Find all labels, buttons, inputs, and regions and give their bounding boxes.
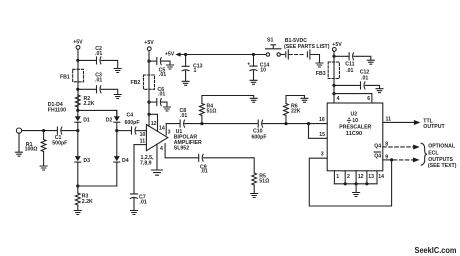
label OPTIONAL ECL OUTPUTS (428, 144, 457, 169)
ground (input) (16, 152, 23, 156)
svg-text:B1-5VDC: B1-5VDC (285, 38, 307, 44)
svg-text:10: 10 (352, 118, 358, 124)
ground (R6) (301, 98, 308, 102)
pin 11 wire (134, 139, 146, 145)
+5V terminal (op-amp supply) (144, 40, 154, 51)
svg-text:.01: .01 (201, 169, 208, 175)
ground (C11) (367, 60, 374, 64)
svg-text:(SEE PARTS LIST): (SEE PARTS LIST) (284, 44, 330, 50)
svg-text:51Ω: 51Ω (259, 178, 269, 184)
svg-text:2.2K: 2.2K (82, 199, 93, 205)
wire ECL output pin 9 (383, 154, 413, 161)
svg-text:14: 14 (378, 174, 384, 180)
svg-text:14: 14 (159, 125, 165, 131)
svg-text:U2: U2 (351, 112, 358, 118)
pin 12 label (151, 121, 157, 127)
wire bridge top (76, 109, 117, 115)
diode D1 (75, 110, 90, 130)
wire C8 to C10 (185, 122, 257, 125)
node bridge right (115, 129, 118, 132)
diode D4 (114, 131, 129, 186)
wire op-amp ground stub (156, 144, 158, 169)
ferrite bead FB1 (60, 69, 84, 82)
svg-text:1: 1 (336, 174, 339, 180)
ground (R4) (250, 98, 257, 102)
svg-text:C11: C11 (345, 61, 354, 67)
ferrite bead FB2 (131, 75, 155, 89)
ground (R1) (40, 166, 47, 170)
svg-text:.01: .01 (95, 51, 102, 57)
capacitor C7 (131, 145, 147, 210)
svg-text:FB1: FB1 (60, 74, 70, 80)
wire +5V column 1 (76, 49, 79, 110)
svg-text:.01: .01 (140, 200, 147, 206)
svg-text:10: 10 (140, 132, 146, 138)
wire +5V column 3 (332, 52, 335, 104)
brace ECL outputs (421, 143, 427, 165)
svg-text:500pF: 500pF (52, 141, 67, 147)
svg-text:D3: D3 (83, 158, 90, 164)
wire +5V column 2 (147, 51, 150, 127)
svg-text:.01: .01 (95, 77, 102, 83)
capacitor C13 (182, 55, 203, 81)
svg-text:OPTIONAL: OPTIONAL (428, 144, 456, 150)
svg-text:11C90: 11C90 (346, 131, 362, 137)
resistor R6 (284, 96, 305, 124)
resistor R5 (252, 173, 269, 193)
wire bridge bottom (76, 184, 117, 187)
svg-text:D4: D4 (122, 158, 129, 164)
svg-text:Q4: Q4 (374, 143, 381, 149)
ground (R5) (251, 194, 258, 198)
svg-text:51Ω: 51Ω (207, 109, 217, 115)
svg-text:9: 9 (385, 154, 388, 160)
prescaler U2 11C90 (327, 103, 383, 171)
label TTL OUTPUT (423, 119, 445, 131)
svg-text:.01: .01 (159, 72, 166, 78)
pin 16 label (319, 117, 325, 123)
wire ground bus (334, 182, 377, 185)
svg-text:Q4: Q4 (374, 154, 381, 160)
wire pin 6 feed (334, 94, 372, 103)
svg-text:+5V: +5V (144, 40, 154, 46)
ground (op-amp) (152, 170, 163, 175)
capacitor C12 (334, 69, 380, 89)
svg-text:4: 4 (160, 146, 163, 152)
wire +5V rail (181, 53, 266, 56)
svg-text:15: 15 (319, 132, 325, 138)
svg-text:12: 12 (151, 121, 157, 127)
resistor R1 (25, 131, 46, 166)
wire op-amp output pin 3 (166, 124, 180, 136)
watermark SeekIC.com (415, 246, 457, 255)
svg-text:4: 4 (337, 96, 340, 102)
svg-text:10: 10 (260, 67, 266, 73)
svg-text:2.2K: 2.2K (84, 101, 95, 107)
capacitor C9 (199, 154, 208, 174)
wire input to ground (18, 133, 20, 152)
svg-text:.01: .01 (158, 92, 165, 98)
svg-text:.01: .01 (361, 75, 368, 81)
input terminal J1 (16, 128, 21, 133)
svg-text:16: 16 (319, 117, 325, 123)
wire pin 3 feedback loop (309, 152, 391, 207)
svg-text:D1: D1 (83, 118, 90, 124)
svg-text:100Ω: 100Ω (25, 147, 38, 153)
+5V terminal (left) (73, 39, 83, 49)
wire C10 to prescaler pin 16 (262, 122, 327, 125)
svg-text:8: 8 (385, 142, 388, 148)
capacitor C8 (180, 108, 188, 127)
label D1-D4 FH1100 (48, 102, 66, 114)
ground (C6) (164, 107, 171, 111)
node bridge left (76, 129, 79, 132)
wire C9 to R5 (203, 158, 254, 173)
svg-text:600pF: 600pF (125, 120, 140, 126)
ferrite bead FB3 (316, 62, 340, 79)
svg-text:OUTPUT: OUTPUT (423, 124, 445, 130)
capacitor C10 (252, 120, 267, 140)
svg-text:+5V: +5V (73, 39, 83, 45)
wire pin 14 feed (149, 114, 158, 131)
pin labels Q4 (374, 143, 381, 159)
diode D3 (75, 131, 90, 186)
svg-text:S1: S1 (267, 38, 273, 44)
capacitor C2 (78, 46, 118, 68)
svg-text:(SEE TEXT): (SEE TEXT) (428, 163, 457, 169)
capacitor C3 (78, 73, 118, 95)
resistor R4 (200, 96, 254, 124)
capacitor C14 (247, 55, 269, 80)
diode D2 (106, 110, 120, 130)
svg-text:SL952: SL952 (174, 146, 189, 152)
svg-text:3: 3 (168, 129, 171, 135)
svg-text:ECL: ECL (428, 151, 439, 157)
ground (prescaler) (353, 193, 360, 197)
svg-text:.01: .01 (180, 113, 187, 119)
capacitor C5 (149, 58, 170, 78)
svg-text:.01: .01 (346, 68, 353, 74)
capacitor C11 (334, 53, 371, 74)
wire op-amp output pin 4 (160, 144, 199, 158)
svg-text:+: + (247, 61, 250, 67)
+5V terminal (prescaler) (332, 42, 342, 51)
switch S1 (266, 38, 281, 57)
svg-text:6: 6 (367, 96, 370, 102)
battery B1 (280, 38, 329, 63)
svg-text:FH1100: FH1100 (48, 107, 66, 113)
arrow ECL 8 (413, 145, 420, 150)
arrow ECL 9 (413, 157, 420, 162)
op-amp common pins label (140, 155, 154, 167)
wire pin 15 branch (309, 124, 328, 139)
svg-text:FB3: FB3 (316, 71, 326, 77)
wire TTL output pin 11 (383, 116, 414, 122)
svg-text:12: 12 (358, 174, 364, 180)
svg-text:2: 2 (347, 174, 350, 180)
svg-text:3: 3 (321, 152, 324, 158)
svg-text:13: 13 (368, 174, 374, 180)
svg-text:11: 11 (386, 116, 392, 122)
pin 14 label (159, 125, 165, 131)
svg-text:D2: D2 (106, 118, 113, 124)
ground (B1) (316, 63, 323, 67)
svg-text:SeekIC.com: SeekIC.com (415, 246, 457, 255)
pin 10 wire label (140, 132, 146, 138)
wire input to R1 node (22, 129, 57, 132)
ground (C2) (114, 69, 121, 73)
svg-text:11: 11 (140, 139, 146, 145)
svg-text:+5V: +5V (165, 51, 175, 57)
wire ECL output pin 8 (383, 142, 413, 148)
ground (C7) (131, 211, 138, 215)
ground (C14) (250, 80, 257, 84)
svg-text:22K: 22K (291, 109, 301, 115)
svg-text:1: 1 (194, 68, 197, 74)
svg-text:7,8,9: 7,8,9 (140, 161, 152, 167)
capacitor C4 (117, 112, 147, 134)
ground (C3) (114, 95, 121, 99)
wire C1 to bridge (62, 130, 78, 132)
ground (C13) (182, 81, 189, 85)
ground (R3) (74, 211, 81, 215)
resistor R3 (75, 186, 93, 210)
resistor R2 (75, 95, 94, 110)
wire bus to ground (355, 184, 357, 192)
svg-text:PRESCALER: PRESCALER (339, 124, 371, 130)
prescaler bottom pin stubs (334, 171, 384, 184)
+5V rail label and arrow (165, 51, 181, 57)
capacitor C6 (149, 87, 167, 106)
svg-text:FB2: FB2 (131, 80, 141, 86)
arrow TTL (414, 120, 421, 125)
svg-text:600pF: 600pF (252, 134, 267, 140)
ground (C5) (167, 65, 174, 69)
op-amp U1 (146, 125, 202, 152)
capacitor C1 (52, 127, 67, 147)
svg-text:C4: C4 (127, 112, 134, 118)
ground (C12) (376, 89, 383, 93)
